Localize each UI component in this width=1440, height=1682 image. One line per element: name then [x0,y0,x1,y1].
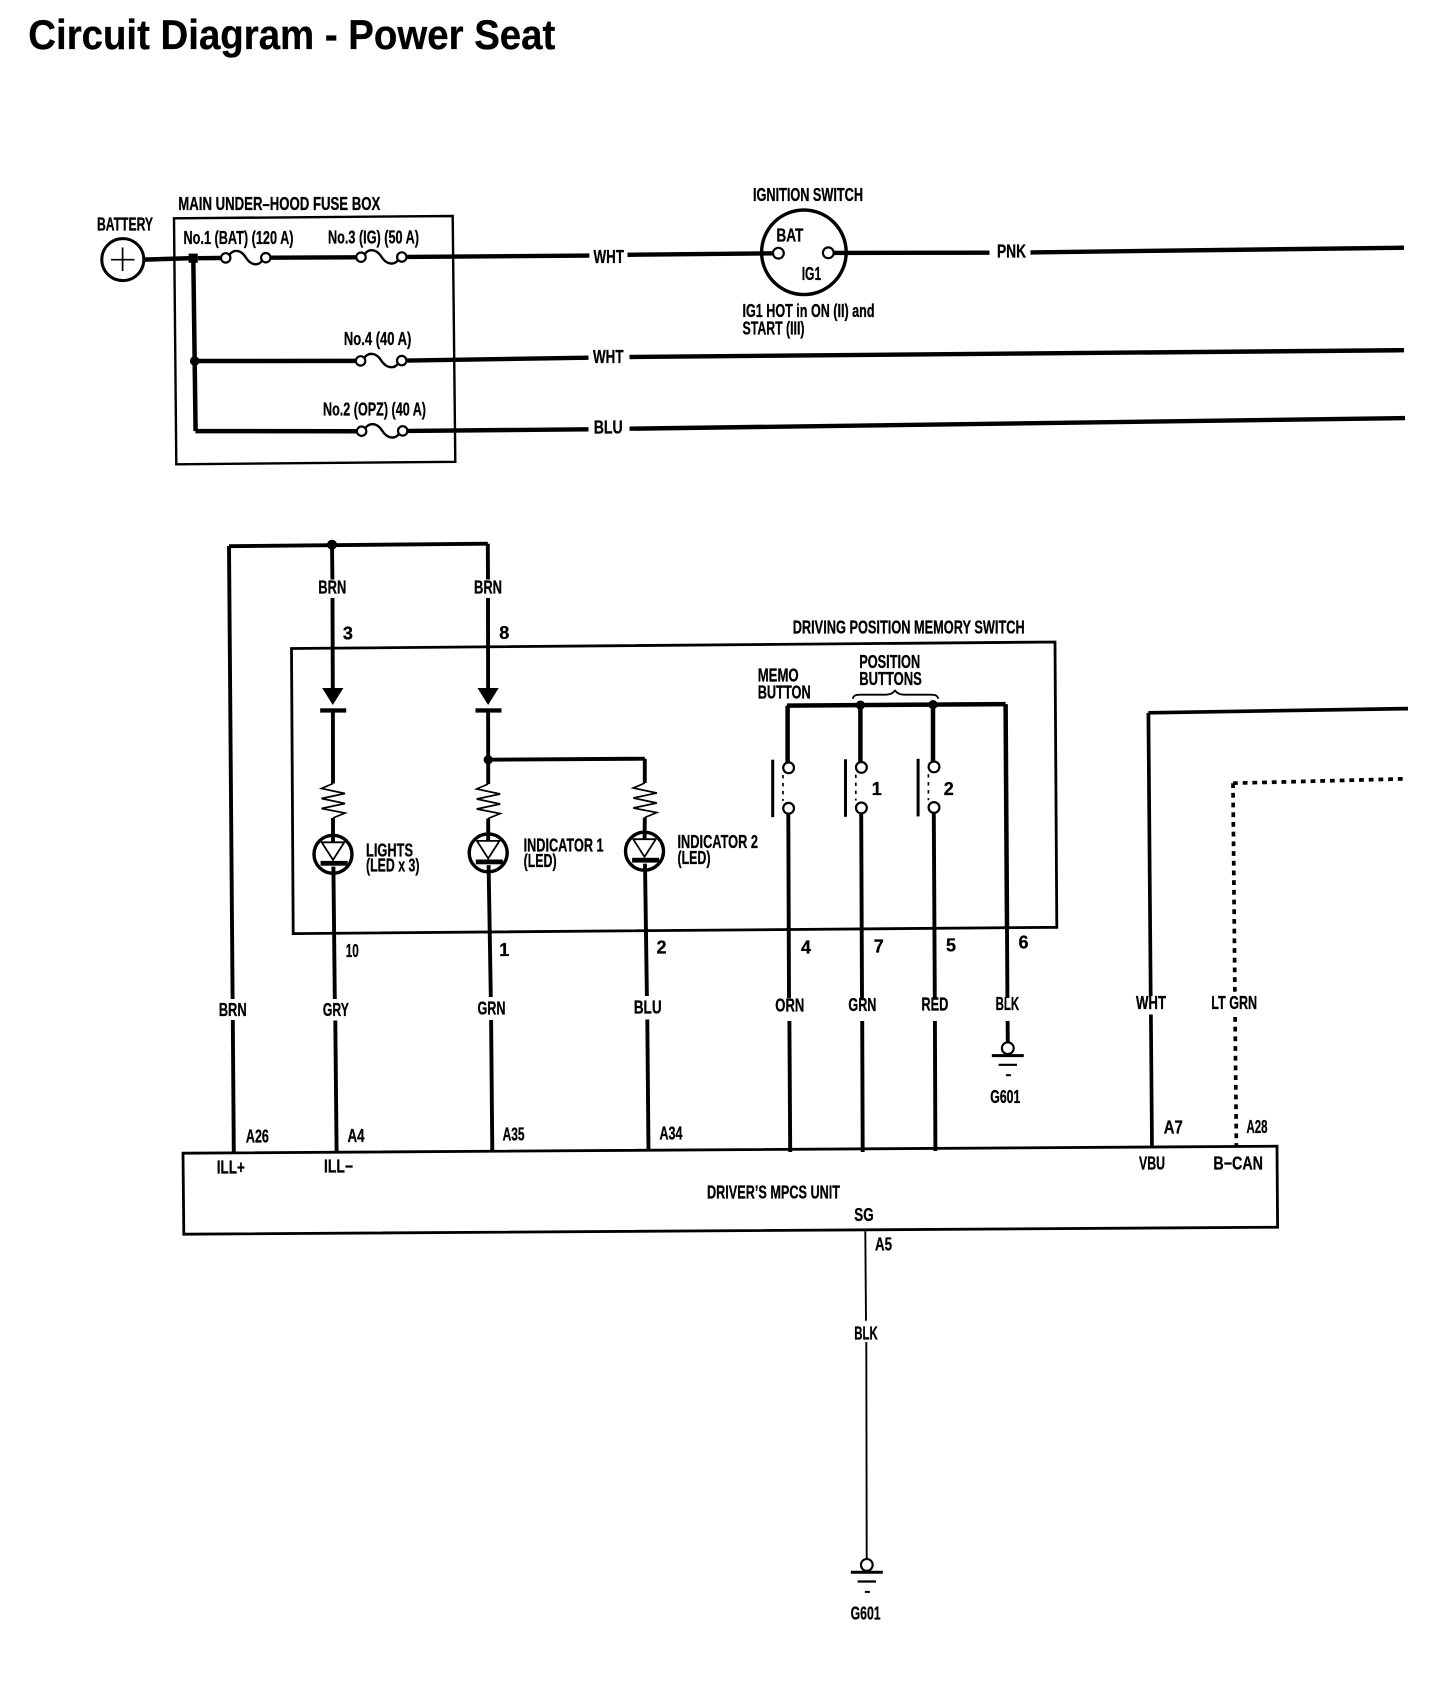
svg-text:1: 1 [872,779,882,799]
ground G601 (memory switch) [1002,1042,1014,1054]
resistor R3 col3 [633,783,657,818]
wire LED col2 down to GRN label [489,865,491,997]
fuse No.3 (IG) (50 A) [356,253,365,262]
wire fuse No.3 to WHT label [407,256,589,257]
svg-text:BATTERY: BATTERY [97,215,153,235]
wire: left drop lower segment [233,1020,234,1152]
svg-text:BUTTON: BUTTON [758,683,811,703]
svg-text:A5: A5 [875,1234,892,1254]
svg-text:No.3 (IG) (50 A): No.3 (IG) (50 A) [328,228,419,248]
fuse No.2 (OPZ) (40 A) [357,427,366,436]
svg-text:GRN: GRN [478,999,506,1019]
wire: memory switch bus [787,704,1006,706]
svg-text:B−CAN: B−CAN [1213,1153,1263,1173]
svg-text:A26: A26 [246,1126,269,1146]
wire ORN to MPCS pin A31 [787,1021,792,1152]
svg-text:GRY: GRY [323,1000,349,1020]
wire pin6 to BLK label [1005,928,1009,998]
svg-text:3: 3 [343,623,353,643]
wire WHT label to ignition switch BAT terminal [628,253,774,255]
svg-text:A35: A35 [503,1125,525,1145]
wire WHT row2 to right edge [630,350,1405,357]
wire LED col3 down to BLU label [645,864,647,996]
driving position memory switch box outline [292,642,1057,934]
node: bus junction button 2 [928,700,937,709]
driver's MPCS unit box outline [183,1146,1278,1234]
wire: top BRN bus horizontal [229,544,488,547]
svg-text:No.2 (OPZ) (40 A): No.2 (OPZ) (40 A) [323,400,426,420]
resistor R2 col2 [477,784,501,819]
node: BRN bus junction col1 [327,540,337,550]
svg-text:ILL+: ILL+ [217,1157,245,1177]
terminal IG1 [823,247,834,258]
fuse No.1 (BAT) (120 A) [221,253,230,262]
wire resistor to LED col1 [331,818,335,844]
svg-text:DRIVER’S MPCS UNIT: DRIVER’S MPCS UNIT [707,1183,840,1203]
node: indicator branch junction [484,755,493,764]
svg-text:A28: A28 [1247,1117,1268,1137]
diode D1 col1 [322,688,343,705]
wire IG1 terminal to PNK label [834,250,990,255]
wire BRN col1 to diode [331,598,335,688]
wire GRY to MPCS pin A4 [335,1021,336,1153]
svg-text:ILL−: ILL− [324,1157,353,1177]
svg-text:BRN: BRN [474,577,502,597]
wire branch to indicator 2 column [488,759,645,760]
svg-text:A4: A4 [348,1126,365,1146]
node: battery feed junction [189,254,198,263]
svg-text:DRIVING POSITION MEMORY SWITCH: DRIVING POSITION MEMORY SWITCH [793,617,1025,637]
wire PNK label to right edge [1031,248,1405,253]
wire BRN column 2 upper (corner from bus) [486,544,490,580]
svg-text:BLK: BLK [996,994,1020,1014]
wire diode to resistor col1 [331,711,335,783]
wire button2 down to RED label [934,813,935,998]
wire BLU label to right edge [630,418,1406,429]
node: No.4 branch junction [190,356,200,366]
svg-text:G601: G601 [990,1087,1020,1107]
svg-text:SG: SG [854,1205,873,1225]
wire: WHT feed horizontal to right edge [1148,709,1408,713]
wire fuse No.4 to WHT label (row 2) [407,358,588,361]
svg-text:4: 4 [801,937,811,957]
wire: LT GRN dashed vertical to MPCS pin A28 (upper) [1233,783,1235,994]
svg-text:A7: A7 [1164,1117,1183,1137]
svg-text:8: 8 [499,623,509,643]
wire: WHT feed vertical to MPCS pin A7 (upper) [1148,713,1150,996]
svg-text:WHT: WHT [593,347,624,367]
wire BRN col2 to diode [486,598,490,688]
svg-text:START (III): START (III) [743,318,805,338]
switch: position button 2 [917,759,920,817]
svg-text:10: 10 [346,941,359,961]
svg-text:7: 7 [874,936,884,956]
wire: left drop from top bus to MPCS pin A26 (upper segment) [229,546,233,999]
svg-text:2: 2 [944,779,954,799]
ignition switch circle [762,210,847,295]
wire BLU to MPCS pin A34 [647,1020,648,1152]
terminal BAT [773,248,784,259]
svg-text:6: 6 [1019,932,1029,952]
svg-text:BLK: BLK [854,1323,878,1343]
wire memo button down to ORN label [786,814,791,998]
svg-text:RED: RED [921,995,948,1015]
wire row2: node to fuse No.4 [195,359,355,364]
LED: INDICATOR 1 (LED) [469,834,507,872]
node: bus junction button 1 [856,701,865,710]
wire fuse No.2 to BLU label [408,429,588,431]
wire resistor to LED col2 [486,819,490,843]
wire resistor to LED col3 [643,818,647,841]
svg-text:MAIN UNDER–HOOD FUSE BOX: MAIN UNDER–HOOD FUSE BOX [178,194,380,214]
svg-text:LT GRN: LT GRN [1211,993,1257,1013]
wire indicator 2 column: corner down to resistor [643,759,647,783]
wire fuse No.1 to fuse No.3 [271,255,355,260]
main under-hood fuse box outline [174,216,455,464]
svg-text:(LED): (LED) [524,851,557,871]
svg-text:WHT: WHT [1136,993,1166,1013]
svg-text:(LED): (LED) [678,848,711,868]
wire diode col2 to junction [486,711,490,759]
wire: bus vertical inside fuse box [193,258,195,431]
wire: pin 6 drop from bus [1006,704,1007,928]
switch: position button 1 [844,759,847,817]
wire: LT GRN dashed vertical lower [1235,1017,1236,1147]
svg-text:5: 5 [946,935,956,955]
svg-text:A34: A34 [660,1124,683,1144]
svg-text:PNK: PNK [997,242,1026,262]
ground G601 (bottom) [861,1559,873,1571]
svg-text:BLU: BLU [634,998,662,1018]
fuse No.4 (40 A) [356,356,365,365]
svg-text:BRN: BRN [318,578,346,598]
LED: LIGHTS (LED x 3) [314,835,352,873]
svg-text:(LED x 3): (LED x 3) [366,856,420,876]
wire junction to resistor col2 [486,760,490,784]
svg-text:WHT: WHT [594,247,625,267]
svg-text:2: 2 [657,938,667,958]
wire GRN to MPCS pin A29 [860,1021,864,1152]
svg-text:BRN: BRN [219,1000,247,1020]
switch: memo button [771,760,774,818]
svg-text:BUTTONS: BUTTONS [859,669,922,689]
svg-text:BLU: BLU [594,417,623,437]
wire row3: corner to fuse No.2 [196,429,357,434]
svg-text:G601: G601 [851,1604,881,1624]
svg-text:GRN: GRN [848,995,876,1015]
svg-text:ORN: ORN [775,996,804,1016]
resistor R1 col1 [322,784,346,819]
svg-text:No.4 (40 A): No.4 (40 A) [344,329,412,349]
svg-text:BAT: BAT [776,226,803,246]
wire BRN column 1 upper [330,545,334,580]
wire BLK to ground G601 (switch) [1006,1021,1010,1042]
wire SG pin A5 down [864,1231,867,1320]
wire LED col1 down to GRY label [333,867,334,999]
wire GRN to MPCS pin A35 [491,1020,492,1152]
diode D2 col2 [478,688,499,705]
svg-text:IG1: IG1 [802,264,822,284]
battery B1 symbol [102,239,144,281]
brace under position buttons [853,691,938,699]
svg-text:IGNITION SWITCH: IGNITION SWITCH [753,185,863,205]
wire: LT GRN dashed horizontal to right edge [1233,779,1406,783]
svg-text:No.1 (BAT) (120 A): No.1 (BAT) (120 A) [184,228,294,248]
wire: WHT feed vertical lower [1151,1015,1152,1149]
LED: INDICATOR 2 (LED) [626,832,664,870]
wire battery to fuse box node [144,258,189,259]
svg-text:Circuit Diagram - Power Seat: Circuit Diagram - Power Seat [28,11,555,58]
wire RED to MPCS pin A30 [933,1021,937,1151]
wire BLK down to ground G601 (bottom) [865,1342,867,1559]
wire node to fuse No.1 [198,256,221,261]
svg-text:1: 1 [499,940,509,960]
wire button1 down to GRN label [859,814,864,999]
svg-text:VBU: VBU [1139,1154,1165,1174]
